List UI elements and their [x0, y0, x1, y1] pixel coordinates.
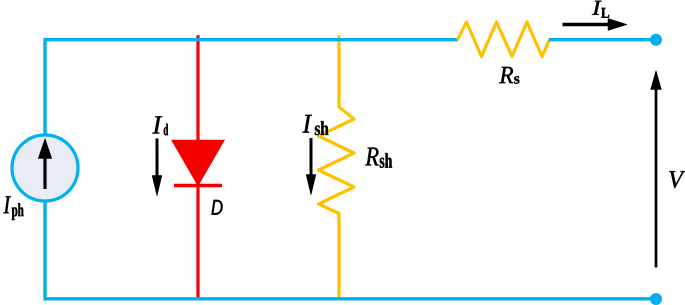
label IL	[592, 1, 609, 18]
arrow Ish (shunt current)	[306, 138, 316, 195]
current source Iph circle	[12, 135, 78, 201]
arrow IL (load current)	[563, 19, 628, 31]
diode D triangle	[171, 140, 225, 187]
label Id	[152, 116, 168, 135]
diode branch red wire upper stub	[196, 35, 199, 141]
label V	[669, 171, 685, 188]
diode D cathode bar	[174, 184, 222, 187]
arrow Id (diode current)	[152, 139, 162, 197]
shunt branch yellow wire with resistor Rsh zigzag	[319, 35, 355, 298]
label Rs	[499, 67, 519, 84]
diode branch red wire lower segment	[196, 186, 199, 299]
resistor Rs zigzag	[458, 22, 550, 57]
label Iph	[4, 196, 24, 220]
node: output terminal bottom dot	[650, 293, 662, 305]
label D	[212, 200, 223, 215]
label Ish	[302, 115, 328, 135]
arrow V (voltage)	[651, 71, 662, 268]
node: output terminal top dot	[650, 34, 662, 46]
wire: left vertical + top bus left segment	[45, 40, 458, 136]
current source Iph arrow	[38, 139, 52, 190]
wire: left lower vertical + bottom bus	[45, 200, 656, 299]
label Rsh	[365, 148, 392, 168]
wire: top bus right segment	[549, 38, 656, 41]
